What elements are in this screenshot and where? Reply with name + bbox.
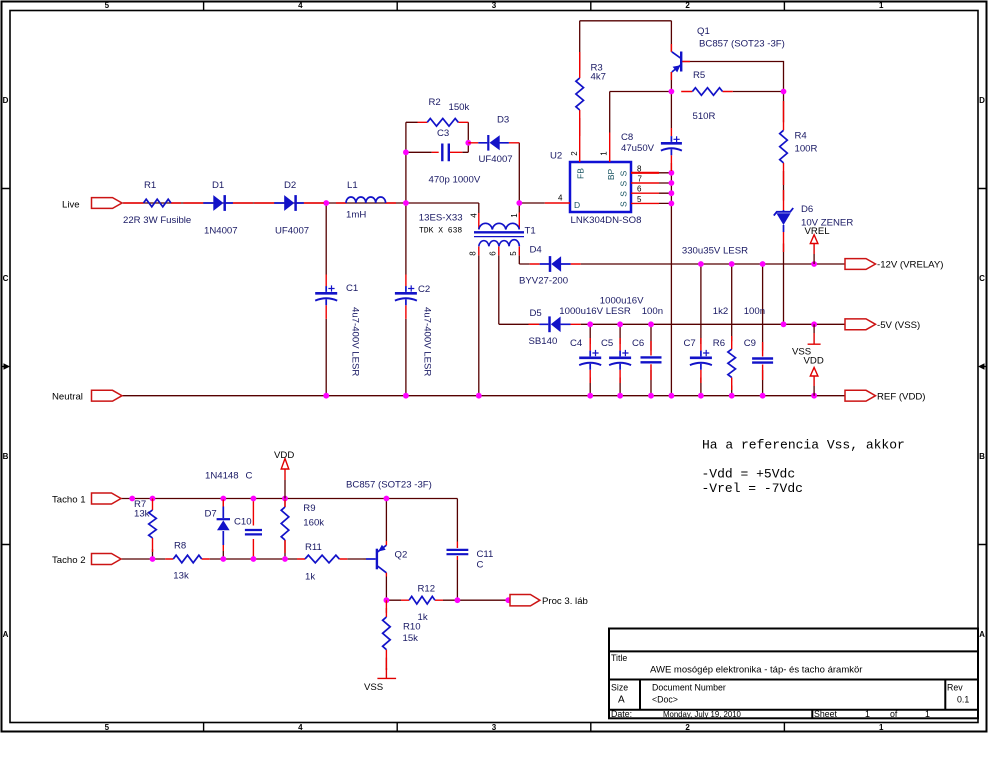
svg-text:C5: C5	[601, 338, 613, 349]
svg-text:4: 4	[558, 194, 563, 203]
wire -12V rail	[519, 255, 845, 264]
zener diode D6	[774, 190, 854, 252]
svg-text:R11: R11	[305, 542, 322, 553]
svg-text:1: 1	[865, 709, 870, 719]
junction -12V/R6	[729, 261, 735, 267]
junction -5V/D6	[781, 321, 787, 327]
junction REF/C1	[323, 393, 329, 399]
junction Tacho2/C10	[251, 556, 257, 562]
svg-text:3: 3	[492, 1, 497, 10]
svg-text:1k: 1k	[305, 572, 315, 583]
wire R3 bottom to FB pin	[579, 118, 581, 133]
junction REF/VDD	[811, 393, 817, 399]
resistor R3	[576, 52, 606, 136]
resistor R9	[281, 500, 324, 554]
svg-text:Ha a referencia Vss, akkor: Ha a referencia Vss, akkor	[702, 438, 905, 453]
port -5V (VSS)	[845, 319, 920, 331]
junction REF/T1pin8	[476, 393, 482, 399]
frame row letters right	[979, 96, 985, 639]
wire R6 branch	[731, 264, 733, 396]
svg-text:AWE mosógép elektronika - táp-: AWE mosógép elektronika - táp- és tacho …	[650, 665, 862, 676]
diode D5	[529, 308, 581, 347]
svg-text:Date:: Date:	[611, 709, 632, 719]
port Proc 3. lab	[510, 595, 588, 608]
svg-text:100n: 100n	[744, 306, 765, 317]
wire C7 branch	[700, 264, 702, 396]
svg-text:R5: R5	[693, 70, 705, 81]
svg-text:TDK X 638: TDK X 638	[419, 227, 462, 236]
svg-text:C: C	[3, 274, 9, 283]
frame row letters left	[3, 96, 9, 639]
svg-text:L1: L1	[347, 180, 358, 191]
wire R7 branch	[152, 549, 154, 559]
svg-text:6: 6	[489, 251, 498, 256]
svg-text:22R 3W Fusible: 22R 3W Fusible	[123, 215, 191, 226]
svg-text:2: 2	[570, 151, 579, 156]
op-amp U2 (LNK304 IC)	[545, 133, 659, 227]
svg-text:FB: FB	[576, 168, 586, 179]
svg-text:5: 5	[637, 195, 642, 204]
svg-text:Q2: Q2	[395, 550, 408, 561]
svg-text:Size: Size	[611, 683, 628, 693]
junction REF/C9	[760, 393, 766, 399]
svg-text:Title: Title	[611, 653, 627, 663]
wire C2 branch	[405, 203, 407, 396]
frame row ticks right	[978, 189, 987, 545]
svg-text:-12V (VRELAY): -12V (VRELAY)	[877, 260, 943, 271]
capacitor C9	[744, 306, 773, 380]
junction -12V/VREL	[811, 261, 817, 267]
capacitor C3	[429, 128, 481, 186]
wire R10 branch	[385, 608, 387, 670]
svg-text:S: S	[619, 201, 629, 207]
svg-text:D: D	[979, 96, 985, 105]
resistor R1	[123, 180, 191, 226]
frame middle arrow left	[2, 363, 10, 369]
junction Tacho1 port	[129, 496, 135, 502]
svg-text:D1: D1	[212, 180, 224, 191]
svg-text:100n: 100n	[642, 306, 663, 317]
wire C10 branch	[252, 499, 254, 560]
svg-text:4: 4	[298, 1, 303, 10]
diode D1	[183, 180, 253, 237]
junction REF/C4	[587, 393, 593, 399]
svg-text:D: D	[3, 96, 9, 105]
title block frame	[609, 629, 978, 719]
wire R5 right to node	[733, 91, 784, 93]
junction snubber right	[465, 140, 471, 146]
svg-text:C3: C3	[437, 128, 449, 139]
wire S pin stubs to vertical	[659, 173, 671, 204]
svg-text:Q1: Q1	[697, 26, 710, 37]
junction S pin 8	[669, 170, 675, 176]
capacitor C6	[632, 306, 663, 380]
resistor R5	[681, 70, 733, 122]
svg-text:Live: Live	[62, 200, 80, 211]
svg-text:U2: U2	[550, 151, 562, 162]
svg-text:7: 7	[638, 175, 643, 184]
svg-text:R6: R6	[713, 338, 725, 349]
svg-text:R10: R10	[403, 622, 421, 633]
svg-text:1: 1	[925, 709, 930, 719]
resistor R8	[165, 541, 209, 582]
wire C11 bottom	[456, 560, 458, 600]
svg-text:R2: R2	[429, 97, 441, 108]
svg-text:D5: D5	[530, 308, 542, 319]
svg-text:Neutral: Neutral	[52, 391, 83, 402]
wire -5V rail	[499, 255, 845, 324]
svg-text:2: 2	[685, 1, 690, 10]
svg-text:4u7-400V LESR: 4u7-400V LESR	[350, 307, 361, 376]
junction REF/C5	[617, 393, 623, 399]
svg-text:4: 4	[470, 213, 479, 218]
capacitor C1	[315, 275, 360, 377]
svg-text:D4: D4	[530, 244, 543, 255]
capacitor C11	[447, 542, 494, 571]
junction R5/R4 node	[781, 89, 787, 95]
junction Tacho1/D7	[220, 496, 226, 502]
resistor R4	[780, 101, 818, 185]
svg-text:0.1: 0.1	[957, 695, 969, 705]
diode D7	[205, 471, 239, 552]
wire BP pin to C8 node	[610, 92, 672, 133]
wire Q2 emitter	[385, 499, 387, 542]
svg-text:1mH: 1mH	[346, 210, 366, 221]
svg-text:15k: 15k	[403, 633, 419, 644]
junction REF/Svert	[669, 393, 675, 399]
diode D3	[468, 115, 519, 166]
svg-text:R1: R1	[144, 180, 156, 191]
svg-text:5: 5	[105, 1, 110, 10]
svg-text:C8: C8	[621, 132, 633, 143]
power symbol VDD (right)	[804, 356, 824, 396]
svg-text:C2: C2	[418, 284, 430, 295]
junction Tacho2/R9	[282, 556, 288, 562]
svg-text:1000u16V LESR: 1000u16V LESR	[559, 306, 631, 317]
svg-text:2: 2	[685, 723, 690, 732]
junction REF/C7	[698, 393, 704, 399]
svg-text:R8: R8	[174, 541, 186, 552]
svg-text:R12: R12	[418, 584, 436, 595]
svg-text:5: 5	[105, 723, 110, 732]
capacitor C10	[234, 517, 262, 535]
capacitor C7	[682, 246, 748, 384]
diode D2	[254, 180, 324, 237]
svg-text:510R: 510R	[693, 111, 716, 122]
svg-text:VSS: VSS	[364, 682, 383, 693]
svg-text:C7: C7	[684, 338, 696, 349]
svg-text:C: C	[477, 560, 484, 571]
svg-text:Tacho 2: Tacho 2	[52, 555, 86, 566]
wire Q2 collector to R12 node	[385, 577, 387, 601]
resistor R6	[713, 306, 736, 390]
svg-text:4u7-400V LESR: 4u7-400V LESR	[422, 307, 433, 376]
frame column numbers bottom	[105, 723, 884, 732]
wire C4 branch	[589, 324, 591, 395]
svg-text:D3: D3	[497, 115, 509, 126]
svg-text:B: B	[979, 452, 985, 461]
svg-text:REF (VDD): REF (VDD)	[877, 391, 926, 402]
junction Live/D-node	[516, 200, 522, 206]
wire Q1 emitter to node	[670, 72, 672, 92]
junction -12V/C9	[760, 261, 766, 267]
port Neutral	[52, 390, 122, 402]
svg-text:Sheet: Sheet	[814, 709, 838, 719]
svg-text:A: A	[3, 630, 9, 639]
svg-text:8: 8	[469, 251, 478, 256]
svg-text:1: 1	[879, 723, 884, 732]
resistor R7	[134, 499, 156, 553]
wire C9 branch	[762, 264, 764, 396]
junction Live/C2/snubber	[403, 200, 409, 206]
svg-text:VREL: VREL	[805, 226, 831, 237]
wire R12 node to port	[386, 599, 508, 601]
junction Proc port	[505, 597, 511, 603]
junction snubber left	[403, 149, 409, 155]
svg-text:UF4007: UF4007	[479, 154, 513, 165]
wire Live rail	[123, 203, 479, 213]
svg-text:Monday, July 19, 2010: Monday, July 19, 2010	[663, 710, 742, 719]
svg-text:1: 1	[879, 1, 884, 10]
wire D6 to -5V rail	[783, 244, 785, 325]
svg-text:-5V (VSS): -5V (VSS)	[877, 320, 920, 331]
svg-text:C10: C10	[234, 517, 252, 528]
svg-text:C4: C4	[570, 338, 583, 349]
svg-text:1000u16V: 1000u16V	[600, 296, 644, 307]
wire T1 pin8 to REF	[478, 255, 480, 395]
svg-text:C11: C11	[477, 549, 494, 560]
transistor Q2	[364, 541, 408, 577]
junction REF/R6	[729, 393, 735, 399]
svg-text:Tacho 1: Tacho 1	[52, 494, 86, 505]
svg-text:3: 3	[492, 723, 497, 732]
port Tacho 1	[52, 493, 121, 505]
svg-text:1k2: 1k2	[713, 306, 728, 317]
junction REF/C2	[403, 393, 409, 399]
svg-text:47u50V: 47u50V	[621, 143, 655, 154]
svg-text:D: D	[574, 200, 580, 210]
svg-text:A: A	[618, 695, 625, 706]
wire Tacho1 rail	[121, 499, 458, 542]
wire C6 branch	[650, 324, 652, 395]
svg-text:B: B	[3, 452, 9, 461]
frame middle arrow right	[978, 363, 987, 369]
junction Tacho1/R7	[150, 496, 156, 502]
resistor R12	[401, 584, 443, 624]
junction -5V/VSS	[811, 321, 817, 327]
svg-text:13k: 13k	[134, 509, 150, 520]
svg-text:1: 1	[600, 151, 609, 156]
svg-text:of: of	[890, 709, 898, 719]
svg-text:150k: 150k	[449, 102, 470, 113]
svg-text:BYV27-200: BYV27-200	[519, 276, 568, 287]
transistor Q1	[671, 26, 784, 80]
svg-text:S: S	[619, 181, 629, 187]
svg-text:470p 1000V: 470p 1000V	[429, 175, 481, 186]
svg-text:D7: D7	[205, 509, 217, 520]
junction REF/C6	[648, 393, 654, 399]
svg-text:BP: BP	[606, 169, 616, 181]
wire C8 to S pins vertical	[670, 163, 672, 396]
capacitor C5	[600, 296, 644, 384]
svg-text:8: 8	[637, 164, 642, 173]
svg-text:330u35V LESR: 330u35V LESR	[682, 246, 748, 257]
svg-text:-Vrel = -7Vdc: -Vrel = -7Vdc	[702, 481, 803, 496]
wire Tacho2 rail	[121, 558, 364, 560]
svg-text:BC857 (SOT23 -3F): BC857 (SOT23 -3F)	[699, 39, 785, 50]
wire Neutral / REF rail	[123, 395, 846, 397]
resistor R11	[297, 542, 347, 583]
svg-text:6: 6	[637, 185, 642, 194]
svg-text:SB140: SB140	[529, 336, 558, 347]
junction Q2/R12/R10	[384, 597, 390, 603]
svg-text:4: 4	[298, 723, 303, 732]
svg-text:13ES-X33: 13ES-X33	[419, 213, 463, 224]
svg-text:R9: R9	[303, 503, 315, 514]
svg-text:S: S	[619, 170, 629, 176]
svg-text:VDD: VDD	[274, 450, 294, 461]
svg-text:Rev: Rev	[947, 683, 963, 693]
svg-text:R4: R4	[795, 131, 808, 142]
frame row ticks left	[2, 189, 10, 545]
svg-text:BC857 (SOT23 -3F): BC857 (SOT23 -3F)	[346, 480, 432, 491]
svg-text:-Vdd = +5Vdc: -Vdd = +5Vdc	[702, 467, 796, 482]
wire snubber right leg	[406, 122, 468, 152]
junction Tacho2/R7	[150, 556, 156, 562]
wire R9 branch	[284, 499, 286, 560]
capacitor C2	[395, 275, 433, 377]
svg-text:1N4007: 1N4007	[204, 226, 238, 237]
port Live	[62, 198, 122, 211]
svg-text:<Doc>: <Doc>	[652, 695, 678, 705]
junction Tacho1/R9-VDD	[282, 496, 288, 502]
diode D4	[519, 244, 581, 286]
svg-text:D2: D2	[284, 180, 296, 191]
svg-text:160k: 160k	[303, 518, 324, 529]
U2 pin names S	[619, 170, 629, 207]
svg-text:1: 1	[510, 213, 519, 218]
junction S pin 6	[669, 190, 675, 196]
power symbol VDD (tacho)	[274, 450, 294, 499]
junction -5V/C6	[648, 321, 654, 327]
wire Q1 base run	[682, 62, 783, 92]
wire snubber left leg	[406, 122, 418, 203]
svg-text:Proc 3. láb: Proc 3. láb	[542, 596, 588, 607]
junction Tacho2/D7	[220, 556, 226, 562]
wire D7 branch	[222, 499, 224, 560]
junction -5V/C4	[587, 321, 593, 327]
wire R4 to D6	[783, 171, 785, 201]
resistor R10	[383, 600, 421, 670]
svg-text:C1: C1	[346, 283, 358, 294]
junction Live/C1	[323, 200, 329, 206]
junction -12V/C7	[698, 261, 704, 267]
frame column ticks bottom	[204, 723, 785, 732]
svg-text:C6: C6	[632, 338, 644, 349]
wire C5 branch	[619, 324, 621, 395]
svg-text:VDD: VDD	[804, 356, 824, 367]
svg-text:4k7: 4k7	[591, 72, 606, 83]
junction S pin 7	[669, 180, 675, 186]
port REF (VDD)	[845, 390, 926, 402]
title block sheet numbers	[865, 709, 930, 719]
inductor L1	[336, 180, 396, 221]
svg-text:C: C	[979, 274, 985, 283]
capacitor C4	[559, 306, 631, 383]
frame column numbers top	[105, 1, 884, 10]
svg-text:D6: D6	[801, 204, 813, 215]
svg-text:13k: 13k	[173, 571, 189, 582]
wire C1 branch	[325, 203, 327, 396]
svg-text:100R: 100R	[795, 144, 818, 155]
svg-text:S: S	[619, 191, 629, 197]
junction Q1 emitter node	[669, 89, 675, 95]
junction -5V/C5	[617, 321, 623, 327]
svg-text:C9: C9	[744, 338, 756, 349]
svg-text:A: A	[979, 630, 985, 639]
power symbol VSS (tacho)	[364, 668, 396, 693]
capacitor C8	[621, 128, 682, 171]
svg-text:LNK304DN-SO8: LNK304DN-SO8	[571, 215, 642, 226]
junction R12/C11	[455, 597, 461, 603]
power symbol VREL	[805, 226, 831, 264]
power symbol VSS (right)	[792, 324, 821, 357]
svg-text:C: C	[246, 471, 253, 482]
svg-text:1N4148: 1N4148	[205, 471, 239, 482]
svg-text:5: 5	[509, 251, 518, 256]
frame column ticks top	[204, 2, 785, 11]
wire node to C8	[670, 92, 672, 129]
svg-text:Document Number: Document Number	[652, 683, 726, 693]
port -12V (VRELAY)	[845, 259, 943, 271]
port Tacho 2	[52, 554, 121, 566]
wire R3 top to Q1 collector	[580, 21, 672, 70]
transformer T1	[419, 213, 536, 256]
resistor R2	[418, 97, 470, 126]
junction Tacho1/Q2	[384, 496, 390, 502]
svg-text:T1: T1	[525, 226, 536, 237]
wire node to R4	[783, 92, 785, 123]
svg-text:UF4007: UF4007	[275, 226, 309, 237]
junction Tacho1/C10	[251, 496, 257, 502]
junction S pin 5	[669, 201, 675, 207]
wire D drain node (dot 519 to IC and down from D3)	[519, 143, 545, 213]
